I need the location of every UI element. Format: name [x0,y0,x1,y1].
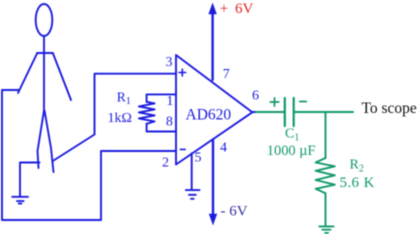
person left arm [18,54,37,94]
person left leg [38,111,45,169]
resistor R1 top lead to pin 1 [147,94,176,102]
output wire to scope [295,111,353,113]
-6V arrowhead [209,214,217,226]
capacitor minus polarity [300,101,307,103]
wire junction down to R2 [325,112,327,158]
capacitor C1 plates [285,98,294,126]
+6V supply line pin 7 [211,14,213,80]
ground at R2 [319,226,333,233]
svg-text:C1: C1 [285,127,299,144]
resistor R1 body [139,102,155,124]
person right leg [45,111,54,173]
pin 6 output wire [252,111,257,113]
svg-text:1000 µF: 1000 µF [267,143,316,159]
svg-text:1kΩ: 1kΩ [108,111,132,126]
capacitor plus polarity [270,98,278,106]
svg-text:8: 8 [166,114,173,129]
wire left-foot electrode to ground [20,163,40,197]
person right arm [53,54,71,101]
op-amp U1 AD620 triangle [176,55,252,165]
-6V supply line pin 4 [212,140,214,215]
svg-text:- 6V: - 6V [221,203,248,219]
svg-text:AD620: AD620 [186,106,232,123]
svg-text:6: 6 [252,88,259,103]
wire left-hand electrode to op-amp pin 2 [2,90,176,220]
svg-text:1: 1 [166,94,173,109]
person body [43,36,45,111]
+6V arrowhead [208,3,216,15]
wire right-leg electrode to op-amp pin 3 [53,74,176,161]
op-amp plus input marker [179,69,186,76]
svg-text:To scope: To scope [362,100,417,117]
svg-text:4: 4 [220,140,227,155]
svg-text:+ 6V: + 6V [220,1,254,17]
svg-text:5: 5 [195,151,202,166]
R2 bottom lead [325,193,327,225]
ground at pin 5 [186,190,200,199]
resistor R1 bottom lead to pin 8 [147,124,176,132]
svg-text:3: 3 [166,55,173,70]
svg-text:2: 2 [162,156,169,171]
svg-text:R2: R2 [350,158,364,175]
person shoulders [37,52,53,54]
svg-text:R1: R1 [117,90,131,108]
person (patient stick figure) head [36,4,53,36]
ground (patient reference) [12,197,28,204]
svg-text:7: 7 [223,67,230,82]
op-amp minus input marker [180,148,185,150]
svg-text:5.6 K: 5.6 K [340,175,375,191]
pin 5 reference lead [191,153,193,189]
resistor R2 body [316,158,335,193]
